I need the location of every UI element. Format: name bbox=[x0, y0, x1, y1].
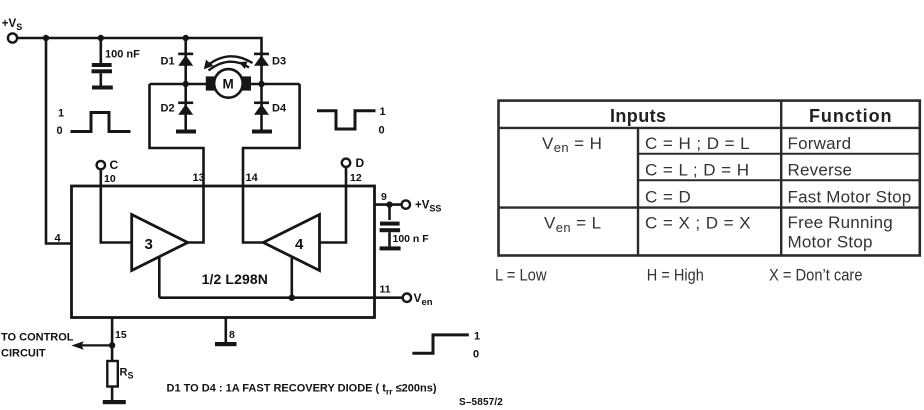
svg-text:D: D bbox=[356, 156, 365, 170]
capacitor C1 100nF bbox=[92, 38, 113, 86]
svg-text:D3: D3 bbox=[272, 56, 286, 68]
junction: motor rail / D1 D2 bbox=[183, 81, 189, 87]
svg-text:9: 9 bbox=[381, 191, 387, 203]
waveform pulse inverted (D input) bbox=[317, 106, 386, 137]
diode D2 bbox=[178, 84, 193, 130]
driver triangle 4 bbox=[263, 215, 319, 271]
pin 15 wire bbox=[111, 318, 114, 361]
diode D4 bbox=[254, 84, 269, 130]
svg-text:M: M bbox=[223, 77, 234, 92]
ground below C2 bbox=[380, 246, 401, 250]
svg-text:11: 11 bbox=[380, 284, 391, 296]
junction: top rail to pin 4 branch bbox=[43, 35, 49, 41]
diode D1 bbox=[178, 53, 193, 66]
svg-text:0: 0 bbox=[379, 125, 385, 137]
svg-text:C = L ; D = H: C = L ; D = H bbox=[645, 161, 749, 180]
svg-text:12: 12 bbox=[350, 172, 362, 184]
ground below pin 8 bbox=[215, 342, 237, 346]
junction: enable net bbox=[289, 295, 295, 301]
svg-text:0: 0 bbox=[57, 125, 63, 137]
wire: +Vs down to pin 4 bbox=[46, 38, 71, 244]
svg-text:RS: RS bbox=[120, 367, 134, 381]
svg-text:Function: Function bbox=[809, 106, 892, 126]
svg-text:S–5857/2: S–5857/2 bbox=[459, 397, 503, 408]
terminal C with pin 10 bbox=[97, 158, 132, 243]
svg-text:15: 15 bbox=[115, 329, 127, 341]
pin 8 wire bbox=[225, 318, 228, 342]
svg-text:1: 1 bbox=[474, 331, 480, 343]
waveform step (Ven) bbox=[412, 331, 480, 361]
svg-text:Inputs: Inputs bbox=[610, 106, 666, 126]
wire: D3 column bbox=[260, 54, 263, 85]
ground below D4 bbox=[252, 130, 272, 134]
IC box 1/2 L298N bbox=[72, 186, 375, 318]
svg-text:Reverse: Reverse bbox=[788, 161, 853, 180]
svg-text:TO CONTROL: TO CONTROL bbox=[1, 332, 74, 344]
svg-text:C = H ; D = L: C = H ; D = L bbox=[645, 134, 750, 153]
motor M bbox=[206, 69, 251, 98]
table: column divider inputs/function bbox=[780, 101, 782, 256]
svg-text:Ven = H: Ven = H bbox=[542, 134, 602, 155]
table: row line 1 bbox=[638, 153, 920, 155]
junction: pin 9 / C2 bbox=[386, 201, 392, 207]
svg-text:X = Don’t care: X = Don’t care bbox=[769, 267, 863, 285]
svg-text:1/2 L298N: 1/2 L298N bbox=[202, 271, 268, 287]
svg-text:4: 4 bbox=[55, 233, 62, 245]
wire: motor rail bbox=[150, 83, 300, 86]
svg-text:1: 1 bbox=[380, 106, 386, 118]
svg-text:D4: D4 bbox=[272, 103, 287, 115]
svg-text:3: 3 bbox=[145, 236, 153, 253]
svg-text:Free Running: Free Running bbox=[788, 213, 893, 232]
driver triangle 3 bbox=[132, 215, 188, 271]
table: row line 3 bbox=[499, 206, 920, 208]
truth table frame bbox=[499, 101, 920, 256]
wire: D1 column bbox=[184, 38, 187, 84]
capacitor C2 100nF bbox=[380, 205, 401, 247]
svg-text:D2: D2 bbox=[161, 103, 175, 115]
table: row line 2 bbox=[638, 179, 920, 181]
svg-text:8: 8 bbox=[229, 329, 235, 341]
ground below C1 bbox=[92, 86, 113, 90]
wire: bridge right leg to pin 14 bbox=[243, 84, 300, 243]
svg-text:H = High: H = High bbox=[647, 267, 704, 285]
junction: top rail to capacitor C1 bbox=[98, 35, 104, 41]
resistor RS bbox=[107, 361, 133, 400]
diode D3 bbox=[254, 53, 269, 66]
arrow to control circuit bbox=[71, 341, 112, 350]
svg-text:Motor Stop: Motor Stop bbox=[788, 233, 873, 252]
svg-text:0: 0 bbox=[473, 349, 479, 361]
svg-text:D1 TO D4 : 1A FAST RECOVER: D1 TO D4 : 1A FAST RECOVERY DIODE ( trr … bbox=[167, 383, 437, 397]
svg-text:Forward: Forward bbox=[788, 134, 852, 153]
svg-text:13: 13 bbox=[193, 172, 205, 184]
svg-text:Fast Motor Stop: Fast Motor Stop bbox=[788, 187, 912, 206]
terminal D with pin 12 bbox=[320, 156, 365, 243]
table cell Free Running Motor Stop bbox=[788, 213, 893, 251]
svg-text:100 nF: 100 nF bbox=[105, 49, 140, 61]
svg-text:Ven = L: Ven = L bbox=[544, 214, 601, 235]
junction: top rail to diode D1 bbox=[183, 35, 189, 41]
svg-text:100 n F: 100 n F bbox=[393, 233, 430, 245]
table: column divider Ven/CD bbox=[637, 128, 639, 256]
terminal +Vs bbox=[2, 18, 22, 43]
junction: pin 15 / control arrow bbox=[109, 342, 115, 348]
waveform pulse (C input) bbox=[57, 108, 131, 138]
ground below D2 bbox=[176, 130, 196, 134]
svg-text:C = X ; D = X: C = X ; D = X bbox=[645, 214, 751, 233]
wire: +Vs top rail bbox=[17, 38, 261, 54]
svg-text:C = D: C = D bbox=[645, 187, 691, 206]
svg-text:D1: D1 bbox=[161, 56, 175, 68]
svg-text:1: 1 bbox=[58, 108, 64, 120]
label TO CONTROL CIRCUIT bbox=[1, 332, 74, 360]
svg-text:L = Low: L = Low bbox=[495, 267, 547, 285]
wire: bridge left leg to pin 13 bbox=[150, 84, 204, 243]
terminal Ven bbox=[375, 291, 433, 308]
terminal +Vss bbox=[402, 200, 442, 214]
pin 9 wire bbox=[375, 203, 402, 206]
table: header separator bbox=[499, 127, 920, 129]
svg-text:Ven: Ven bbox=[414, 291, 433, 308]
svg-text:CIRCUIT: CIRCUIT bbox=[1, 348, 46, 360]
junction: motor rail / D3 D4 bbox=[258, 81, 264, 87]
rotation arrows above motor bbox=[204, 56, 253, 70]
svg-text:+VS: +VS bbox=[2, 18, 22, 32]
ground below RS bbox=[103, 400, 126, 404]
svg-text:C: C bbox=[110, 158, 119, 172]
svg-text:14: 14 bbox=[246, 172, 259, 184]
svg-text:+VSS: +VSS bbox=[415, 200, 441, 214]
enable net wire (pin 11) bbox=[159, 257, 374, 298]
svg-text:4: 4 bbox=[295, 236, 304, 253]
svg-text:10: 10 bbox=[104, 173, 116, 185]
